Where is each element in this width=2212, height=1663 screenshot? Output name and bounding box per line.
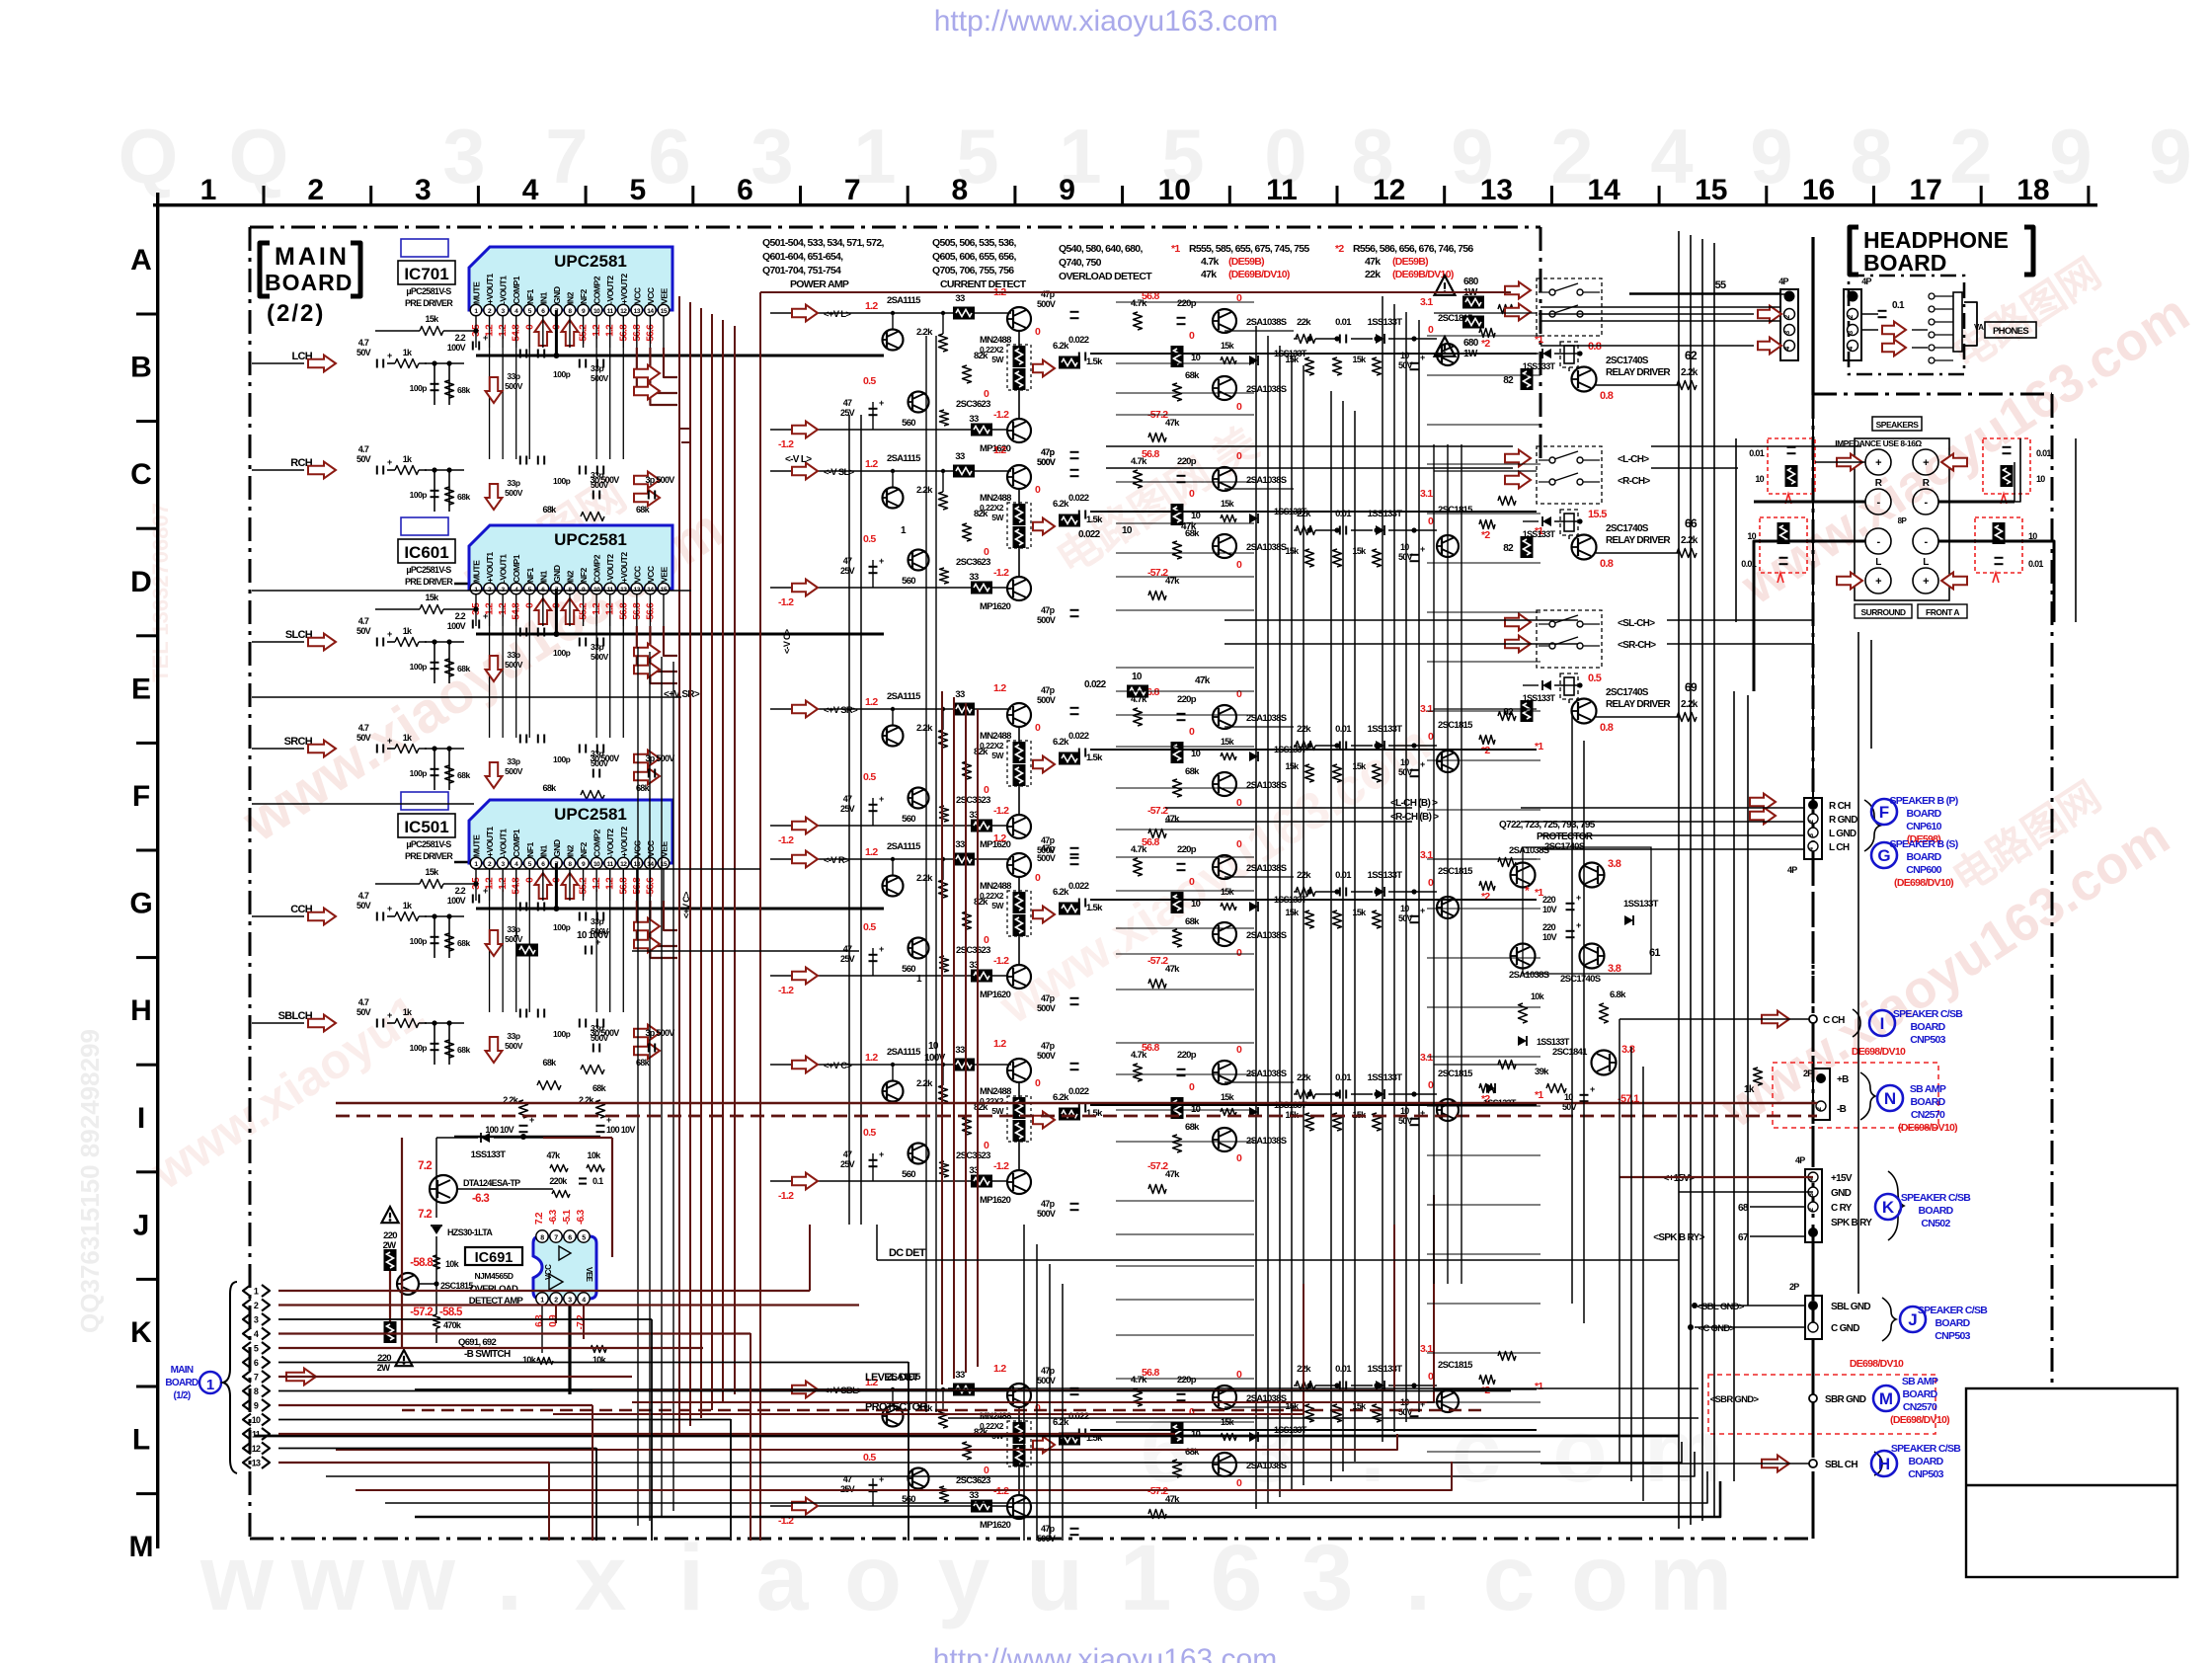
svg-text:2.2k: 2.2k bbox=[1681, 699, 1698, 710]
resistor bbox=[1173, 779, 1182, 797]
svg-text:MAIN: MAIN bbox=[275, 243, 350, 271]
resistor bbox=[1373, 1113, 1382, 1131]
svg-text:2SA1038S: 2SA1038S bbox=[1509, 970, 1549, 981]
svg-text:25V: 25V bbox=[840, 804, 855, 814]
resistor (box symbol) bbox=[1171, 346, 1184, 367]
svg-text:0: 0 bbox=[984, 1465, 989, 1476]
svg-text:0.9: 0.9 bbox=[548, 1314, 559, 1327]
svg-text:<+V L>: <+V L> bbox=[824, 309, 851, 320]
svg-text:0: 0 bbox=[1236, 401, 1242, 413]
svg-text:220p: 220p bbox=[1177, 694, 1197, 705]
svg-text:10k: 10k bbox=[588, 1150, 602, 1160]
svg-text:4.7k: 4.7k bbox=[1131, 298, 1147, 309]
svg-text:BOARD: BOARD bbox=[1911, 1021, 1946, 1033]
svg-text:2SC1815: 2SC1815 bbox=[1438, 720, 1473, 731]
svg-text:11: 11 bbox=[252, 1430, 261, 1440]
signal flow arrow bbox=[534, 873, 551, 899]
current detect cell bbox=[1286, 1052, 1544, 1131]
signal flow arrow bbox=[792, 1173, 818, 1190]
resistor (box symbol) bbox=[1013, 1097, 1026, 1119]
resistor bbox=[1305, 357, 1314, 375]
overload detect cell bbox=[1068, 836, 1307, 989]
signal flow arrow bbox=[534, 598, 551, 624]
svg-text:L: L bbox=[1923, 557, 1929, 568]
svg-text:4P: 4P bbox=[1787, 865, 1797, 875]
svg-text:33: 33 bbox=[955, 1370, 965, 1381]
capacitor bbox=[376, 912, 378, 921]
resistor bbox=[1519, 1003, 1528, 1023]
capacitor bbox=[537, 1009, 539, 1018]
svg-text:CURRENT DETECT: CURRENT DETECT bbox=[940, 278, 1027, 290]
svg-text:c: c bbox=[1483, 1526, 1536, 1630]
svg-text:CN2570: CN2570 bbox=[1903, 1401, 1937, 1413]
connector pin bbox=[243, 1285, 251, 1297]
feedback network between channels bbox=[454, 753, 674, 865]
svg-text:100 10V: 100 10V bbox=[606, 1125, 635, 1135]
svg-text:2.2k: 2.2k bbox=[1681, 367, 1698, 378]
svg-text:.: . bbox=[497, 1526, 522, 1630]
svg-text:560: 560 bbox=[902, 576, 915, 587]
capacitor bbox=[648, 1044, 650, 1053]
resistor (box symbol) bbox=[1462, 316, 1484, 329]
svg-text:68k: 68k bbox=[457, 492, 470, 502]
svg-text:15k: 15k bbox=[1221, 341, 1235, 351]
resistor bbox=[420, 605, 443, 614]
resistor bbox=[1173, 541, 1182, 559]
channel input network SLCH bbox=[252, 616, 660, 683]
overload detect cell bbox=[1068, 686, 1307, 838]
svg-text:5W: 5W bbox=[991, 901, 1004, 911]
svg-text:1.2: 1.2 bbox=[865, 846, 878, 858]
diode bbox=[1376, 334, 1384, 344]
diode bbox=[1518, 1036, 1527, 1046]
resistor (box symbol) bbox=[1521, 368, 1534, 390]
capacitor bbox=[431, 1043, 439, 1045]
svg-text:2: 2 bbox=[307, 174, 324, 206]
svg-text:2.2k: 2.2k bbox=[916, 873, 933, 884]
resistor bbox=[939, 492, 948, 510]
svg-text:5: 5 bbox=[254, 1344, 259, 1354]
svg-text:9: 9 bbox=[1059, 174, 1075, 206]
svg-text:500V: 500V bbox=[1037, 615, 1056, 625]
svg-text:50V: 50V bbox=[356, 348, 371, 357]
svg-text:13: 13 bbox=[1480, 174, 1513, 206]
resistor bbox=[537, 1081, 561, 1090]
svg-text:2SC3623: 2SC3623 bbox=[956, 795, 990, 806]
svg-text:3.1: 3.1 bbox=[1420, 296, 1433, 308]
resistor bbox=[1373, 1404, 1382, 1422]
svg-text:<SR-CH>: <SR-CH> bbox=[1618, 640, 1656, 651]
svg-text:MUTE: MUTE bbox=[472, 560, 482, 583]
power amp cell -V R bbox=[770, 832, 1103, 1013]
svg-text:GND: GND bbox=[1831, 1188, 1852, 1199]
svg-text:0.1: 0.1 bbox=[1892, 300, 1905, 311]
svg-text:IN2: IN2 bbox=[565, 291, 575, 304]
svg-text:1.2: 1.2 bbox=[993, 1363, 1006, 1375]
svg-text:VCC: VCC bbox=[646, 840, 656, 857]
capacitor bbox=[2003, 446, 2012, 448]
svg-text:1.5k: 1.5k bbox=[1086, 515, 1103, 525]
resistor (box symbol) bbox=[384, 1321, 397, 1343]
resistor bbox=[519, 1100, 528, 1118]
svg-text:100p: 100p bbox=[410, 1043, 428, 1053]
svg-text:UPC2581: UPC2581 bbox=[554, 252, 627, 271]
capacitor bbox=[519, 1125, 528, 1127]
svg-text:10: 10 bbox=[1132, 672, 1143, 682]
capacitor bbox=[596, 466, 598, 475]
svg-text:CNP610: CNP610 bbox=[1906, 821, 1941, 832]
svg-text:0.022: 0.022 bbox=[1078, 529, 1101, 540]
svg-text:PHONES: PHONES bbox=[1993, 326, 2028, 337]
svg-text:100p: 100p bbox=[410, 490, 428, 500]
svg-text:6.2k: 6.2k bbox=[1053, 737, 1069, 748]
svg-text:0.22X2: 0.22X2 bbox=[980, 891, 1004, 901]
svg-text:10V: 10V bbox=[1542, 905, 1557, 914]
resistor (box symbol) bbox=[1171, 504, 1184, 525]
resistor (box symbol) bbox=[1521, 536, 1534, 558]
svg-text:4.7k: 4.7k bbox=[1131, 456, 1147, 467]
svg-text:15k: 15k bbox=[1286, 355, 1301, 364]
signal flow arrow bbox=[634, 662, 660, 678]
svg-text:COMP1: COMP1 bbox=[512, 276, 521, 304]
svg-text:0: 0 bbox=[1035, 872, 1041, 884]
capacitor bbox=[596, 850, 605, 852]
svg-text:-5.1: -5.1 bbox=[562, 1209, 573, 1225]
svg-text:+: + bbox=[1923, 457, 1929, 469]
svg-text:+: + bbox=[483, 886, 488, 896]
svg-text:-1.2: -1.2 bbox=[778, 438, 794, 450]
svg-text:*1: *1 bbox=[1535, 1381, 1543, 1392]
capacitor bbox=[519, 572, 528, 574]
capacitor bbox=[1070, 857, 1079, 859]
svg-text:3.8: 3.8 bbox=[1608, 963, 1621, 975]
resistor bbox=[1134, 708, 1143, 726]
resistor (box symbol) bbox=[953, 307, 975, 320]
resistor bbox=[537, 528, 561, 537]
capacitor bbox=[579, 912, 581, 921]
svg-text:MUTE: MUTE bbox=[472, 834, 482, 857]
svg-text:0: 0 bbox=[1428, 877, 1434, 889]
resistor bbox=[1677, 549, 1697, 558]
transistor bbox=[1213, 855, 1236, 879]
capacitor bbox=[537, 903, 539, 911]
diode bbox=[1249, 1107, 1258, 1117]
svg-text:6.2k: 6.2k bbox=[1053, 341, 1069, 352]
svg-text:500V: 500V bbox=[1037, 457, 1056, 467]
svg-text:500V: 500V bbox=[1037, 1376, 1056, 1386]
svg-text:IC501: IC501 bbox=[404, 818, 448, 836]
capacitor bbox=[1070, 1203, 1079, 1205]
overload detect cell bbox=[1068, 1367, 1307, 1519]
op-amp pre-driver IC IC501 UPC2581 bbox=[375, 792, 884, 1012]
svg-text:22k: 22k bbox=[1297, 317, 1311, 328]
signal flow arrow bbox=[1762, 1011, 1789, 1028]
resistor bbox=[581, 791, 604, 800]
capacitor bbox=[869, 1484, 878, 1486]
resistor bbox=[939, 730, 948, 748]
svg-text:<C GND>: <C GND> bbox=[1698, 1323, 1736, 1334]
svg-text:500V: 500V bbox=[1037, 299, 1056, 309]
resistor (box symbol) bbox=[953, 703, 975, 716]
svg-text:+: + bbox=[387, 736, 392, 746]
capacitor bbox=[1995, 557, 2004, 559]
resistor (box symbol) bbox=[971, 820, 992, 832]
svg-text:68k: 68k bbox=[1185, 766, 1200, 777]
svg-text:14: 14 bbox=[647, 861, 654, 868]
transistor bbox=[1572, 699, 1597, 724]
power amp cell +V SBL bbox=[770, 1363, 1103, 1544]
svg-text:2SA1115: 2SA1115 bbox=[887, 1047, 921, 1058]
current detect cell bbox=[1286, 849, 1544, 928]
svg-text:12: 12 bbox=[620, 861, 627, 868]
capacitor bbox=[537, 350, 539, 358]
svg-text:82: 82 bbox=[1503, 375, 1514, 386]
svg-text:CNP600: CNP600 bbox=[1906, 864, 1941, 876]
svg-text:1: 1 bbox=[200, 174, 217, 206]
resistor bbox=[445, 1040, 454, 1058]
svg-text:L GND: L GND bbox=[1829, 829, 1856, 839]
svg-text:SPEAKER C/SB: SPEAKER C/SB bbox=[1918, 1305, 1988, 1316]
svg-text:4.7: 4.7 bbox=[358, 616, 369, 626]
svg-text:COMP2: COMP2 bbox=[592, 554, 602, 583]
svg-text:4.7k: 4.7k bbox=[1201, 256, 1219, 268]
svg-text:9: 9 bbox=[254, 1401, 259, 1411]
svg-text:+: + bbox=[879, 398, 884, 408]
warning mark bbox=[395, 1350, 412, 1366]
svg-text:10: 10 bbox=[928, 1041, 939, 1052]
svg-text:13: 13 bbox=[252, 1459, 261, 1468]
svg-text:-VOUT2: -VOUT2 bbox=[605, 829, 615, 857]
svg-text:500V: 500V bbox=[505, 488, 523, 498]
svg-text:220p: 220p bbox=[1177, 844, 1197, 855]
resistor (box symbol) bbox=[971, 1500, 992, 1513]
svg-text:6.3: 6.3 bbox=[534, 1314, 545, 1327]
svg-text:<-V R>: <-V R> bbox=[824, 855, 850, 866]
transistor bbox=[1511, 863, 1536, 888]
svg-text:500V: 500V bbox=[505, 660, 523, 670]
svg-text:0.022: 0.022 bbox=[1068, 335, 1089, 346]
svg-text:0.022: 0.022 bbox=[1084, 679, 1107, 690]
svg-text:3: 3 bbox=[568, 1298, 572, 1305]
svg-text:+: + bbox=[595, 937, 600, 947]
svg-text:SBL GND: SBL GND bbox=[1831, 1302, 1870, 1312]
svg-text:VCC: VCC bbox=[646, 566, 656, 583]
resistor bbox=[1148, 1510, 1166, 1519]
svg-text:R GND: R GND bbox=[1829, 815, 1857, 826]
capacitor bbox=[431, 490, 439, 492]
transistor bbox=[1592, 1051, 1617, 1075]
resistor bbox=[1134, 1064, 1143, 1081]
svg-text:7.2: 7.2 bbox=[534, 1212, 545, 1225]
svg-text:+VOUT2: +VOUT2 bbox=[619, 827, 629, 857]
svg-text:(DE69B/DV10): (DE69B/DV10) bbox=[1228, 269, 1290, 280]
diode bbox=[1542, 349, 1551, 358]
svg-text:82: 82 bbox=[1503, 543, 1514, 554]
svg-text:50V: 50V bbox=[356, 733, 371, 743]
resistor (box symbol) bbox=[971, 970, 992, 983]
svg-text:+VOUT1: +VOUT1 bbox=[485, 827, 495, 857]
svg-text:1: 1 bbox=[1120, 1526, 1172, 1630]
svg-text:15k: 15k bbox=[1286, 908, 1301, 917]
svg-text:*1: *1 bbox=[1535, 741, 1543, 752]
capacitor bbox=[596, 912, 598, 921]
capacitor bbox=[472, 342, 474, 351]
svg-text:-6.3: -6.3 bbox=[548, 1209, 559, 1225]
svg-text:2SA1038S: 2SA1038S bbox=[1509, 845, 1549, 856]
svg-text:Q601-604, 651-654,: Q601-604, 651-654, bbox=[762, 251, 843, 263]
svg-text:2W: 2W bbox=[377, 1363, 391, 1374]
svg-text:BOARD: BOARD bbox=[1911, 1096, 1946, 1108]
svg-text:GND: GND bbox=[552, 286, 562, 304]
svg-text:47k: 47k bbox=[1195, 675, 1211, 686]
resistor bbox=[596, 826, 605, 843]
signal flow arrow bbox=[1033, 907, 1055, 923]
svg-text:13: 13 bbox=[634, 861, 641, 868]
capacitor bbox=[579, 638, 581, 647]
svg-text:47k: 47k bbox=[1165, 964, 1180, 975]
svg-text:4.7k: 4.7k bbox=[1131, 1375, 1147, 1386]
capacitor bbox=[1070, 1528, 1079, 1530]
svg-text:OVERLOAD: OVERLOAD bbox=[470, 1284, 518, 1295]
resistor bbox=[1134, 312, 1143, 330]
resistor (box symbol) bbox=[953, 465, 975, 478]
transistor bbox=[1437, 751, 1459, 772]
svg-text:47: 47 bbox=[843, 944, 852, 954]
svg-text:18: 18 bbox=[2016, 174, 2049, 206]
svg-text:47p: 47p bbox=[1041, 289, 1056, 299]
capacitor bbox=[596, 638, 598, 647]
svg-text:PRE DRIVER: PRE DRIVER bbox=[405, 577, 453, 587]
svg-text:220p: 220p bbox=[1177, 298, 1197, 309]
svg-text:+: + bbox=[387, 1010, 392, 1020]
svg-text:Q540, 580, 640, 680,: Q540, 580, 640, 680, bbox=[1059, 243, 1143, 255]
svg-text:BOARD: BOARD bbox=[1907, 851, 1942, 863]
channel input network RCH bbox=[252, 444, 660, 512]
svg-text:4: 4 bbox=[1848, 347, 1855, 351]
svg-text:500V: 500V bbox=[591, 373, 609, 383]
signal flow arrow bbox=[308, 634, 336, 651]
svg-text:8P: 8P bbox=[1898, 516, 1908, 525]
resistor bbox=[581, 1066, 604, 1074]
svg-text:COMP2: COMP2 bbox=[592, 829, 602, 857]
svg-text:*1: *1 bbox=[1171, 243, 1180, 255]
svg-text:POWER AMP: POWER AMP bbox=[790, 278, 849, 290]
svg-text:1.5k: 1.5k bbox=[1086, 356, 1103, 367]
resistor bbox=[963, 523, 972, 541]
svg-text:47k: 47k bbox=[1165, 1169, 1180, 1180]
capacitor bbox=[1339, 1090, 1341, 1099]
svg-text:68k: 68k bbox=[457, 385, 470, 395]
capacitor bbox=[648, 769, 650, 778]
svg-text:.: . bbox=[1405, 1526, 1431, 1630]
capacitor bbox=[431, 936, 439, 938]
svg-text:6.2k: 6.2k bbox=[1053, 887, 1069, 898]
resistor (box symbol) bbox=[1059, 903, 1080, 915]
svg-text:33: 33 bbox=[969, 414, 979, 425]
resistor bbox=[1173, 1460, 1182, 1477]
svg-text:10k: 10k bbox=[445, 1259, 460, 1269]
svg-text:http://www.xiaoyu163.com: http://www.xiaoyu163.com bbox=[933, 1643, 1278, 1663]
svg-text:100p: 100p bbox=[553, 369, 571, 379]
resistor bbox=[395, 745, 419, 753]
transistor bbox=[1007, 815, 1031, 838]
svg-text:RELAY DRIVER: RELAY DRIVER bbox=[1606, 367, 1671, 378]
svg-text:Q505, 506, 535, 536,: Q505, 506, 535, 536, bbox=[932, 237, 1016, 249]
svg-text:<L-CH>: <L-CH> bbox=[1618, 454, 1649, 465]
svg-text:FRONT A: FRONT A bbox=[1926, 607, 1959, 617]
capacitor bbox=[1070, 707, 1079, 709]
svg-text:10: 10 bbox=[1122, 525, 1133, 536]
connector pin bbox=[243, 1357, 251, 1369]
signal flow arrow bbox=[486, 762, 503, 788]
svg-text:2SA1038S: 2SA1038S bbox=[1246, 317, 1287, 328]
svg-text:0.01: 0.01 bbox=[1335, 317, 1352, 328]
svg-text:0: 0 bbox=[1035, 326, 1041, 338]
svg-text:Q691, 692: Q691, 692 bbox=[458, 1337, 496, 1348]
svg-text:0.22X2: 0.22X2 bbox=[980, 741, 1004, 751]
svg-text:i: i bbox=[678, 1526, 704, 1630]
capacitor bbox=[431, 383, 439, 385]
svg-text:6.2k: 6.2k bbox=[1053, 499, 1069, 510]
svg-text:68k: 68k bbox=[592, 1083, 607, 1093]
transistor bbox=[1007, 1384, 1031, 1407]
svg-text:(1/2): (1/2) bbox=[173, 1390, 190, 1401]
svg-text:1.2: 1.2 bbox=[993, 682, 1006, 694]
transistor bbox=[1007, 1059, 1031, 1082]
svg-text:0: 0 bbox=[1189, 1081, 1195, 1093]
capacitor bbox=[519, 903, 521, 911]
svg-text:50V: 50V bbox=[356, 626, 371, 636]
svg-text:UPC2581: UPC2581 bbox=[554, 805, 627, 824]
capacitor bbox=[869, 954, 878, 956]
svg-text:2: 2 bbox=[1784, 315, 1791, 319]
transistor bbox=[1213, 1061, 1236, 1084]
resistor (box symbol) bbox=[1127, 685, 1148, 698]
svg-text:+VOUT1: +VOUT1 bbox=[485, 552, 495, 583]
svg-text:1.2: 1.2 bbox=[865, 696, 878, 708]
transistor bbox=[1007, 465, 1031, 489]
svg-text:NJM4565D: NJM4565D bbox=[475, 1271, 513, 1281]
resistor bbox=[1134, 470, 1143, 488]
diode bbox=[1486, 1083, 1495, 1093]
resistor bbox=[1305, 911, 1314, 928]
svg-text:+: + bbox=[1420, 906, 1425, 915]
svg-text:6: 6 bbox=[254, 1358, 259, 1368]
capacitor bbox=[519, 350, 521, 358]
svg-text:7: 7 bbox=[545, 113, 588, 199]
svg-text:0: 0 bbox=[984, 784, 989, 796]
resistor (box symbol) bbox=[971, 582, 992, 594]
svg-text:4P: 4P bbox=[1795, 1155, 1805, 1165]
capacitor bbox=[537, 735, 539, 744]
svg-text:-6.3: -6.3 bbox=[576, 1209, 587, 1225]
svg-text:-1.2: -1.2 bbox=[993, 567, 1009, 579]
svg-text:C CH: C CH bbox=[1823, 1015, 1845, 1026]
svg-text:w: w bbox=[381, 1526, 456, 1630]
svg-text:MUTE: MUTE bbox=[472, 281, 482, 304]
svg-text:-B: -B bbox=[1837, 1104, 1847, 1115]
capacitor bbox=[1177, 475, 1186, 477]
signal flow arrow bbox=[792, 1382, 818, 1398]
svg-text:8: 8 bbox=[254, 1386, 259, 1396]
resistor (box symbol) bbox=[1013, 914, 1026, 936]
svg-text:NF2: NF2 bbox=[579, 568, 589, 583]
resistor bbox=[445, 380, 454, 398]
svg-text:2: 2 bbox=[1848, 315, 1855, 319]
svg-text:33p: 33p bbox=[507, 650, 519, 660]
svg-text:CN502: CN502 bbox=[1921, 1218, 1950, 1229]
svg-text:33p: 33p bbox=[507, 756, 519, 766]
